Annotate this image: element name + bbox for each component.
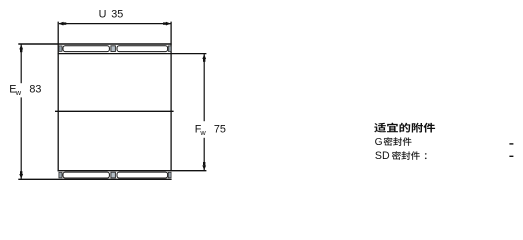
svg-text:75: 75 (214, 124, 226, 136)
line2 char 密 (384, 137, 393, 145)
bearing right edge (with U right extension above) (170, 22, 172, 172)
heading char 件 (423, 123, 435, 133)
heading char 附 (412, 123, 423, 133)
Ew dimension top arrowhead (19, 45, 23, 53)
bottom cage right spacer block (168, 172, 171, 178)
Fw dimension line upper segment (203, 54, 205, 121)
top needle roller 2 (117, 46, 168, 52)
bottom cage inner line (with Fw bottom extension line) (58, 170, 207, 172)
bottom needle roller 2 (117, 172, 168, 178)
svg-text:G: G (375, 137, 383, 148)
top cage right spacer block (168, 46, 171, 52)
top cage middle block (111, 46, 116, 52)
G seals value dash (509, 143, 513, 144)
line2 char 封 (393, 137, 402, 145)
heading char 适 (374, 123, 386, 133)
bottom needle roller 1 (63, 172, 109, 178)
bottom cage middle block (111, 172, 116, 178)
Fw dimension top arrowhead (202, 54, 206, 62)
Fw dimension label (195, 124, 226, 137)
svg-text:U: U (99, 8, 107, 20)
top cage left spacer block (59, 46, 62, 52)
SD seals value dash (509, 156, 513, 157)
svg-text:w: w (15, 88, 22, 97)
U dimension label (99, 8, 124, 20)
U dimension left arrowhead (58, 22, 66, 26)
line2 char 件 (403, 137, 412, 145)
Ew dimension line lower segment (20, 97, 22, 179)
Ew dimension line upper segment (20, 44, 22, 83)
heading char 宜 (387, 123, 398, 133)
Fw dimension bottom arrowhead (202, 162, 206, 170)
bearing outer bottom line (with Ew bottom extension line) (18, 178, 171, 180)
top needle roller 1 (63, 46, 109, 52)
line3 char 密 (392, 151, 401, 159)
svg-text:35: 35 (111, 8, 123, 20)
bearing outer top line (with Ew top extension line) (18, 43, 171, 45)
U dimension line (59, 23, 171, 25)
top cage inner line (with Fw top extension line) (58, 53, 207, 55)
svg-text:w: w (199, 128, 206, 137)
line3 char 件 (411, 151, 420, 159)
line3 char 封 (402, 151, 411, 159)
SD seals label latin SD (375, 150, 390, 162)
svg-text:SD: SD (375, 150, 390, 162)
Ew dimension label (9, 84, 41, 97)
middle section line (55, 110, 174, 112)
line3 fullwidth colon (425, 153, 426, 159)
bearing left edge (with U left extension above) (57, 22, 59, 172)
G seals label latin G (375, 137, 383, 148)
heading char 的 (399, 123, 410, 133)
U dimension right arrowhead (163, 22, 171, 26)
svg-text:83: 83 (29, 84, 41, 96)
Ew dimension bottom arrowhead (19, 171, 23, 179)
bottom cage left spacer block (59, 172, 62, 178)
Fw dimension line lower segment (203, 138, 205, 171)
